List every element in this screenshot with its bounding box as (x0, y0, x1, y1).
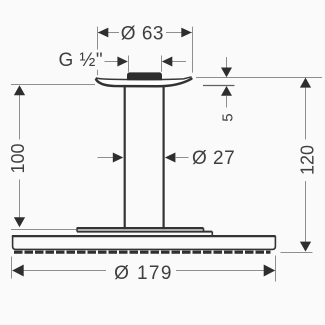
dimension 120 : extension line top (196, 77, 322, 79)
dimension 5 : lower arrow (up) (221, 86, 232, 96)
pipe right wall (163, 87, 165, 230)
dimension Ø 27 : right leader (175, 157, 189, 159)
dimension 100 : bottom arrow (14, 217, 25, 227)
dimension Ø 27 : right arrow (165, 153, 176, 163)
upper mounting plate step line (77, 231, 212, 233)
svg-text:G ½": G ½" (59, 50, 104, 71)
dimension Ø 27 : left leader (98, 157, 116, 159)
dimension G 1/2 : left leader (105, 61, 121, 63)
svg-text:120: 120 (298, 145, 318, 175)
svg-text:Ø 179: Ø 179 (114, 263, 173, 284)
dimension 100 : extension line top (11, 84, 95, 86)
dimension G 1/2 : extension line left (128, 56, 130, 72)
svg-text:100: 100 (8, 143, 28, 173)
svg-text:Ø 63: Ø 63 (121, 24, 164, 45)
G 1/2 threaded boss (127, 72, 162, 80)
upper mounting plate top edge (77, 227, 204, 229)
dimension G 1/2 : extension line right (161, 56, 163, 72)
dimension Ø 63 : dimension line (98, 32, 192, 34)
dimension 5 : lower leader (226, 96, 228, 108)
upper mounting plate outer right edge (211, 232, 213, 236)
svg-text:5: 5 (220, 113, 237, 121)
dimension 120 : dimension line (305, 79, 307, 250)
dimension 100 : extension line bottom (11, 229, 77, 231)
dimension 120 : extension line bottom (281, 252, 313, 254)
dimension Ø 179 : dimension line (13, 270, 275, 272)
dimension 100 : top arrow (14, 85, 25, 95)
ceiling flange escutcheon (96, 77, 192, 87)
dimension 5 : upper arrow (down) (221, 68, 232, 78)
dimension G 1/2 : left arrow (117, 57, 128, 67)
dimension 5 : extension line (203, 85, 235, 87)
svg-text:Ø 27: Ø 27 (192, 148, 235, 169)
dimension 5 : upper leader (226, 57, 228, 69)
upper mounting plate right edge (203, 228, 205, 231)
upper mounting plate left edge (76, 228, 78, 231)
dimension Ø 179 : left arrow (12, 265, 24, 277)
pipe left wall (124, 87, 126, 230)
dimension 120 : bottom arrow (300, 242, 311, 252)
dimension G 1/2 : right leader (170, 61, 186, 63)
dimension Ø 179 : right arrow (264, 265, 276, 277)
flange bottom edge (thick curved) (96, 79, 191, 87)
nozzle spray face (dashed) (14, 251, 271, 254)
dimension 120 : top arrow (300, 78, 311, 88)
dimension Ø 27 : left arrow (113, 153, 124, 163)
dimension Ø 179 : extension line left (11, 257, 13, 279)
dimension Ø 63 : left arrow (98, 28, 109, 38)
dimension Ø 179 : extension line right (275, 256, 277, 282)
dimension 100 : dimension line (19, 86, 21, 227)
dimension Ø 63 : right arrow (181, 28, 192, 38)
shower disc top edge (12, 235, 276, 237)
dimension G 1/2 : right arrow (162, 57, 173, 67)
dimension Ø 63 : extension line left (97, 27, 99, 76)
dimension Ø 63 : extension line right (192, 27, 194, 73)
shower disc body outline (13, 236, 276, 249)
